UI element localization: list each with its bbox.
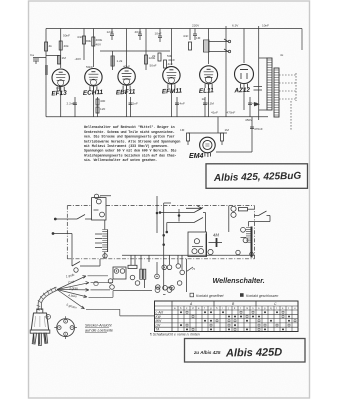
svg-text:Kontakt geoeffnet: Kontakt geoeffnet	[196, 294, 224, 298]
svg-text:Wellenschalter auf Bedruckt "M: Wellenschalter auf Bedruckt "Mittel". Be…	[84, 125, 175, 130]
svg-text:40nF: 40nF	[168, 58, 175, 62]
svg-text:1k: 1k	[202, 97, 206, 101]
svg-text:EF13: EF13	[51, 90, 67, 98]
svg-text:EM4: EM4	[189, 153, 204, 160]
svg-text:Albis 425, 425BuG: Albis 425, 425BuG	[213, 171, 302, 184]
svg-text:TA: TA	[156, 328, 160, 332]
svg-text:3 grau: 3 grau	[69, 286, 78, 290]
svg-text:0.1M: 0.1M	[207, 102, 214, 106]
svg-text:Stecker-Ansicht: Stecker-Ansicht	[85, 324, 112, 328]
svg-text:4.7k: 4.7k	[252, 102, 258, 106]
svg-text:mit Multavi Instrument (333 Oh: mit Multavi Instrument (333 Ohm/V) gemes…	[84, 144, 169, 149]
svg-text:2k: 2k	[152, 54, 156, 58]
svg-text:nen. Die Stroeme und Spannungs: nen. Die Stroeme und Spannungswerte gelt…	[84, 135, 175, 140]
svg-text:Senkrechte. Schema und Teile n: Senkrechte. Schema und Teile nicht ungez…	[84, 130, 175, 135]
svg-text:-40V: -40V	[75, 57, 82, 61]
svg-text:50nF: 50nF	[86, 65, 93, 69]
svg-text:4M: 4M	[213, 233, 219, 238]
svg-text:4nF: 4nF	[183, 34, 188, 38]
svg-text:80k: 80k	[86, 39, 91, 43]
svg-text:Ca: Ca	[30, 53, 34, 57]
svg-text:2.2nF: 2.2nF	[67, 102, 75, 106]
svg-text:4k: 4k	[49, 44, 53, 48]
svg-text:50nF: 50nF	[150, 64, 157, 68]
svg-text:¶ Schaltansicht v. vorne n. hi: ¶ Schaltansicht v. vorne n. hinten	[150, 333, 200, 337]
svg-text:auf die Loetseite: auf die Loetseite	[85, 329, 113, 333]
svg-text:4nF: 4nF	[77, 35, 82, 39]
svg-text:1M: 1M	[62, 56, 67, 60]
svg-text:50nF: 50nF	[63, 34, 70, 38]
svg-text:EL11: EL11	[199, 87, 215, 95]
svg-text:ECH11: ECH11	[83, 89, 104, 97]
svg-text:1M: 1M	[225, 128, 230, 132]
svg-text:4x: 4x	[280, 53, 284, 57]
svg-text:40V: 40V	[96, 43, 102, 47]
svg-text:470nF: 470nF	[227, 111, 236, 115]
svg-text:40nF: 40nF	[123, 65, 130, 69]
svg-text:1M: 1M	[196, 36, 201, 40]
svg-text:41nF: 41nF	[211, 111, 218, 115]
svg-text:4nF: 4nF	[180, 102, 185, 106]
svg-text:40nF: 40nF	[135, 30, 142, 34]
svg-text:sis. Wellenschalter auf unten: sis. Wellenschalter auf unten gesehen.	[84, 158, 157, 163]
svg-text:40: 40	[56, 86, 60, 90]
svg-text:1.2k: 1.2k	[117, 59, 123, 63]
svg-text:10nF: 10nF	[155, 32, 162, 36]
svg-text:Gleichspannungswerte beziehen: Gleichspannungswerte beziehen sich auf d…	[84, 153, 177, 158]
svg-text:1M: 1M	[180, 128, 185, 132]
svg-text:Wellenschalter.: Wellenschalter.	[213, 276, 265, 285]
svg-text:120: 120	[100, 107, 105, 111]
svg-text:betriebswarme Geraete. Alle St: betriebswarme Geraete. Alle Stroeme und …	[84, 139, 180, 144]
svg-text:450V: 450V	[245, 118, 253, 122]
svg-text:1nF: 1nF	[133, 102, 138, 106]
svg-text:220V: 220V	[192, 24, 200, 28]
svg-text:12nF: 12nF	[107, 30, 114, 34]
svg-text:Spannungen ueber 50 V mit dem: Spannungen ueber 50 V mit dem 600 V Bere…	[84, 149, 177, 154]
svg-text:EBF11: EBF11	[116, 88, 136, 96]
svg-text:m: m	[246, 307, 248, 310]
svg-text:Kontakt geschlossen: Kontakt geschlossen	[246, 294, 278, 298]
svg-text:400k: 400k	[96, 38, 103, 42]
svg-text:400: 400	[100, 99, 105, 103]
svg-text:2 rot: 2 rot	[67, 280, 75, 285]
svg-text:EFM11: EFM11	[162, 87, 183, 95]
svg-text:r: r	[276, 306, 277, 310]
svg-text:10nF: 10nF	[262, 24, 269, 28]
svg-text:4nF: 4nF	[168, 62, 173, 66]
svg-text:Albis 425D: Albis 425D	[225, 347, 283, 360]
svg-text:40k: 40k	[64, 44, 69, 48]
svg-text:zu Albis 425: zu Albis 425	[193, 350, 221, 355]
svg-text:AZ12: AZ12	[233, 87, 250, 95]
svg-text:6.3V: 6.3V	[232, 24, 239, 28]
svg-text:470nF: 470nF	[254, 127, 263, 131]
